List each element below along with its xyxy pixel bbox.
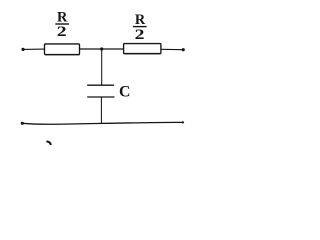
svg-text:C: C xyxy=(119,83,130,100)
wire: bottom rail xyxy=(22,122,183,124)
node: bottom-left terminal dot xyxy=(21,122,24,125)
wire: junction down to capacitor xyxy=(101,49,103,85)
svg-text:2: 2 xyxy=(57,24,67,40)
wire: left terminal to R1 xyxy=(23,48,45,50)
figure label fragment ")" (cropped) xyxy=(47,142,50,146)
wire: R2 to right terminal xyxy=(161,48,183,50)
label R/2 for resistor R1 xyxy=(55,10,69,40)
label R/2 for resistor R2 xyxy=(133,12,147,42)
capacitor C bottom plate xyxy=(88,96,114,98)
wire: R1 to junction to R2 xyxy=(80,48,124,50)
capacitor C top plate xyxy=(88,84,114,86)
node: junction of R1, R2 and C xyxy=(100,47,103,50)
node: bottom rail right end xyxy=(182,121,184,123)
svg-text:2: 2 xyxy=(135,27,145,43)
resistor R1 (body) xyxy=(45,44,80,55)
resistor R2 (body) xyxy=(124,44,161,54)
node: right output terminal dot xyxy=(182,48,185,51)
node: left input terminal dot xyxy=(21,48,24,51)
wire: capacitor down to bottom rail xyxy=(100,97,102,123)
